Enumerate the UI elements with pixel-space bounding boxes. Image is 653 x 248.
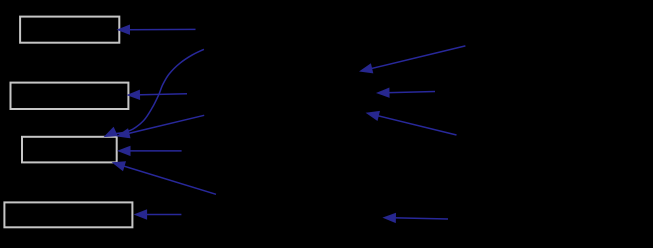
arrow A2 into box B2	[127, 90, 188, 100]
arrow A5 into box B3 right side	[117, 146, 182, 156]
arrow A10 diagonal (right group, lower)	[366, 111, 457, 135]
arrow A4 into box B3 top-right	[116, 115, 204, 138]
label box B1 (top left)	[20, 17, 119, 43]
arrow A9 horizontal (right group, middle)	[376, 88, 435, 98]
arrow A8 long diagonal (right group, top)	[359, 46, 465, 74]
arrow A11 horizontal (bottom right)	[382, 213, 448, 223]
curved arrow A3 (S-curve into box B3 top-right corner)	[104, 49, 204, 137]
label box B4 (bottom left)	[4, 202, 132, 227]
arrow A1 into box B1	[117, 25, 196, 35]
arrow A7 into box B4	[134, 209, 182, 219]
label box B3	[22, 137, 117, 163]
arrow A6 into box B3 bottom-right corner	[112, 161, 216, 194]
label box B2	[11, 83, 129, 109]
